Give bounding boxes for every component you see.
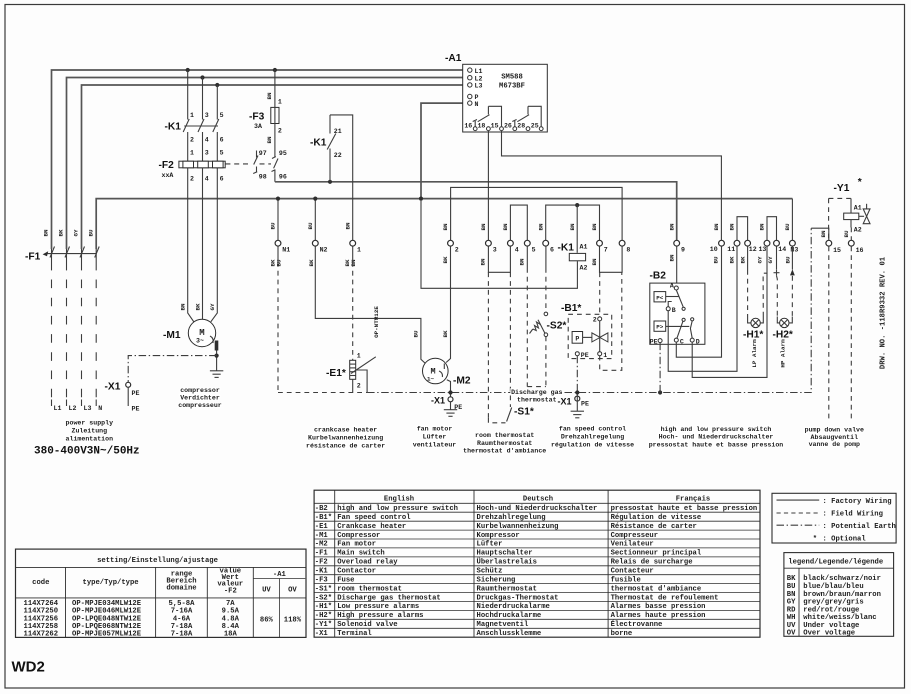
B2 internal changeover mechanism [666, 290, 694, 338]
wire field L2 to supply [66, 249, 68, 270]
wire B2 PE to rail [659, 343, 661, 393]
svg-text:GY: GY [787, 599, 796, 607]
svg-text:-H1*: -H1* [743, 330, 763, 341]
svg-text:-F2: -F2 [315, 559, 328, 567]
wire F2 to M1 (BK) [202, 168, 204, 320]
B2 pin C [674, 338, 678, 342]
B2 P-low box [654, 292, 666, 302]
pin A1 L1 [468, 68, 472, 72]
svg-text:PE: PE [581, 352, 589, 359]
svg-text:7: 7 [604, 247, 608, 254]
svg-text:Hochdruckalarme: Hochdruckalarme [477, 612, 542, 620]
terminal 1 [350, 240, 356, 246]
svg-text:WD2: WD2 [12, 659, 45, 676]
svg-text:118%: 118% [284, 617, 302, 625]
svg-text:L2: L2 [475, 75, 483, 82]
svg-text:GY: GY [73, 229, 80, 237]
B2 pin PE [658, 339, 662, 343]
svg-text:-K1: -K1 [315, 568, 329, 576]
svg-text:16: 16 [856, 247, 864, 254]
caption fan motor [413, 426, 457, 449]
svg-text:-M2: -M2 [453, 376, 471, 387]
svg-text:High pressure alarms: High pressure alarms [337, 612, 423, 620]
svg-text:96: 96 [279, 174, 287, 181]
svg-text:-B2: -B2 [315, 505, 328, 513]
wire S2 bottom to box bottom [545, 337, 547, 387]
svg-text:Hauptschalter: Hauptschalter [477, 550, 533, 558]
svg-text:Alarmes haute pression: Alarmes haute pression [611, 612, 706, 620]
wire field discharge thermostat left (terminal 5) [526, 246, 528, 268]
svg-text:4: 4 [205, 137, 209, 144]
terminal 10 [719, 240, 725, 246]
ground symbol M2 [444, 410, 457, 417]
svg-text:HP Alarm: HP Alarm [780, 339, 787, 368]
svg-text:BK: BK [740, 256, 747, 264]
wire B1 X1 to ground [576, 395, 578, 412]
wire lamp H1 to terminal 13 wire [763, 273, 767, 316]
svg-text:-F3: -F3 [249, 112, 265, 123]
terminal 13 [764, 240, 770, 246]
svg-text:Lüfter: Lüfter [477, 541, 503, 549]
pin A1 N [468, 101, 472, 105]
svg-text:-X1: -X1 [558, 397, 572, 407]
terminal 2 [448, 240, 454, 246]
wiring style legend box [772, 493, 896, 543]
svg-text:Low pressure alarms: Low pressure alarms [337, 603, 419, 611]
main switch F1 [43, 247, 100, 258]
svg-text:BU: BU [270, 222, 277, 230]
svg-text:OP-NTM12E: OP-NTM12E [373, 306, 380, 338]
svg-text:1: 1 [278, 99, 282, 106]
node junction PE rail / B1 X1 [575, 390, 579, 394]
svg-text:M673BF: M673BF [499, 83, 525, 91]
svg-text:BN: BN [266, 92, 273, 100]
svg-text:pressostat haute et basse pres: pressostat haute et basse pression [649, 441, 784, 448]
B1 pin 2 [598, 317, 602, 321]
svg-text:-K1: -K1 [165, 122, 182, 133]
wire potential earth rail [367, 228, 811, 392]
terminal N3 [790, 240, 796, 246]
relay contact A1 26/28/25 [512, 106, 541, 126]
svg-text:2: 2 [190, 137, 194, 144]
svg-text:room thermostat: room thermostat [337, 585, 402, 593]
svg-text:2: 2 [455, 247, 459, 254]
node M1 PE junction [215, 354, 219, 358]
svg-text:Deutsch: Deutsch [523, 495, 553, 503]
svg-text:pump down valve: pump down valve [805, 426, 864, 433]
wire mechanical link F2 dashed [225, 163, 271, 165]
svg-text:1: 1 [357, 353, 361, 360]
wire N1 riser [277, 199, 279, 240]
svg-text:BN: BN [519, 258, 526, 266]
wire M2 X1 to ground [450, 402, 452, 410]
node cross mark on wire 14 [774, 270, 780, 276]
svg-text:Kurbelwannenheizung: Kurbelwannenheizung [477, 523, 559, 531]
wire E1 bottom to PE rail [352, 379, 354, 392]
caption fan speed control [551, 426, 634, 449]
motor M2 fan [423, 358, 449, 384]
wire field room thermostat left (terminal 3) [487, 272, 489, 418]
node junction N1/BU bus [276, 197, 280, 201]
svg-text:Magnetventil: Magnetventil [477, 621, 529, 629]
svg-text:GY: GY [209, 303, 216, 311]
svg-text:11: 11 [727, 246, 735, 253]
svg-text:3~: 3~ [196, 338, 204, 345]
wire E1 side hook [356, 370, 367, 393]
svg-text:ventilateur: ventilateur [413, 442, 457, 449]
svg-text:Contactor: Contactor [337, 568, 376, 576]
settings table [16, 549, 307, 637]
svg-text:16: 16 [464, 122, 472, 129]
svg-text:13: 13 [758, 246, 766, 253]
svg-text:Alarmes basse pression: Alarmes basse pression [611, 603, 706, 611]
svg-text:-M2: -M2 [315, 541, 328, 549]
node junction BN line / K1 aux [328, 180, 332, 184]
svg-text:Schütz: Schütz [477, 568, 503, 576]
svg-text:Fuse: Fuse [337, 576, 354, 584]
node junction PE rail / B2 PE [658, 390, 662, 394]
svg-text:21: 21 [334, 128, 342, 135]
svg-text:-H1*: -H1* [315, 603, 332, 611]
wire terminal 15 feed [811, 228, 829, 240]
svg-text:BK: BK [729, 256, 736, 264]
svg-text:1: 1 [603, 352, 607, 359]
svg-text:L3: L3 [475, 83, 483, 90]
relay contact A1 16/18/15 [473, 106, 502, 126]
solenoid coil Y1 [844, 198, 859, 227]
terminal N1 [275, 240, 281, 246]
svg-text:6: 6 [550, 247, 554, 254]
svg-text:SM588: SM588 [501, 74, 523, 82]
svg-text:Over voltage: Over voltage [803, 629, 855, 637]
lamp H1 LP alarm [748, 317, 764, 328]
wire jumper terminals 4-5 [510, 205, 527, 240]
svg-text:Résistance de carter: Résistance de carter [611, 523, 697, 531]
svg-text:15: 15 [833, 247, 841, 254]
terminal 16 [848, 240, 854, 246]
wire terminal 2 to terminal 8 [451, 187, 622, 240]
wire F2 to M1 (GY) [211, 168, 218, 322]
svg-text:LP Alarm: LP Alarm [751, 339, 758, 368]
svg-text:N2: N2 [320, 247, 328, 254]
overload relay F2 [179, 161, 225, 168]
svg-text:: Factory Wiring: : Factory Wiring [823, 498, 892, 506]
svg-text:BN: BN [668, 223, 675, 231]
caption discharge gas thermostat [511, 389, 562, 404]
contactor K1 main contacts [183, 70, 219, 161]
svg-text:-A1: -A1 [273, 571, 287, 579]
fan speed control B1 box [568, 314, 612, 358]
B2 pin A [674, 286, 678, 290]
svg-text:BU: BU [784, 223, 791, 231]
svg-text:BN: BN [480, 223, 487, 231]
terminal 7 [597, 240, 603, 246]
svg-text:-F2: -F2 [224, 587, 237, 595]
wire terminal 9 to B2 A [676, 246, 678, 286]
svg-text:high and low pressure switch: high and low pressure switch [661, 426, 772, 433]
svg-text:OV: OV [288, 587, 297, 595]
terminal ticks L1 L2 L3 N [52, 400, 97, 407]
svg-text:P>: P> [656, 324, 664, 331]
svg-text:Main switch: Main switch [337, 550, 384, 558]
svg-text:Lüfter: Lüfter [423, 434, 447, 441]
svg-text:English: English [384, 495, 414, 503]
svg-text:-S2*: -S2* [547, 321, 567, 332]
svg-text:BK: BK [442, 256, 449, 264]
svg-text:Fan speed control: Fan speed control [337, 514, 411, 522]
svg-text:legend/Legende/légende: legend/Legende/légende [788, 559, 883, 567]
B2 pin B [666, 307, 670, 311]
svg-text:A2: A2 [580, 265, 588, 272]
svg-text:BN: BN [480, 258, 487, 266]
svg-text:black/schwarz/noir: black/schwarz/noir [803, 575, 881, 583]
wire jumper terminals 13-14 [767, 217, 777, 240]
wire B2 D to terminal 13 [692, 246, 767, 377]
svg-text:A2: A2 [854, 227, 862, 234]
wire terminal 14 stub [776, 246, 778, 269]
terminal 3 [486, 240, 492, 246]
svg-text:résistance de carter: résistance de carter [306, 443, 385, 450]
svg-text:5: 5 [220, 150, 224, 157]
svg-text:Terminal: Terminal [337, 630, 372, 638]
svg-text:Relais de surcharge: Relais de surcharge [611, 559, 693, 567]
svg-text:B: B [672, 307, 676, 314]
svg-text:Discharge gas thermostat: Discharge gas thermostat [337, 594, 441, 602]
terminal 6 [543, 240, 549, 246]
svg-text:Contacteur: Contacteur [611, 568, 654, 576]
svg-text:-K1: -K1 [558, 243, 575, 254]
svg-text:BN: BN [350, 259, 357, 267]
ground symbol B1 X1 [571, 411, 584, 418]
svg-text:-S2*: -S2* [315, 594, 332, 602]
svg-text:BK: BK [787, 575, 796, 583]
svg-text:N: N [98, 405, 102, 412]
svg-text:*: * [813, 535, 817, 543]
svg-text:-E1*: -E1* [326, 368, 346, 379]
svg-text:Discharge gas: Discharge gas [511, 389, 562, 396]
svg-text:-B1*: -B1* [561, 303, 581, 314]
svg-text:18A: 18A [224, 631, 238, 639]
svg-text:Absaugventil: Absaugventil [811, 434, 859, 441]
svg-text:-M1: -M1 [163, 330, 181, 341]
terminal 5 [524, 240, 530, 246]
svg-text:BK: BK [308, 259, 315, 267]
wire A1 pin15 to terminal 10 [502, 131, 722, 240]
svg-text:4: 4 [205, 176, 209, 183]
svg-text:Kompressor: Kompressor [477, 532, 520, 540]
wire terminal 2 to fan motor M2 [446, 246, 450, 362]
wire X1 PE pigtail [127, 387, 129, 406]
svg-text:Raumthermostat: Raumthermostat [477, 585, 537, 593]
svg-text:95: 95 [279, 150, 287, 157]
svg-text:Kurbelwannenheizung: Kurbelwannenheizung [308, 435, 383, 442]
wire N/BU bus right section [421, 198, 792, 200]
svg-text:BU: BU [785, 256, 792, 264]
svg-text:blue/blau/bleu: blue/blau/bleu [803, 583, 863, 591]
svg-text:brown/braun/marron: brown/braun/marron [803, 591, 881, 599]
svg-text:3: 3 [493, 247, 497, 254]
svg-text:A1: A1 [580, 244, 588, 251]
B1 pin 1 [598, 352, 602, 356]
contactor K1 auxiliary contact 21/22 [327, 115, 353, 240]
control board A1 [463, 64, 548, 132]
svg-text:: Potential Earth: : Potential Earth [823, 523, 896, 531]
svg-text:3: 3 [205, 112, 209, 119]
svg-text:Sicherung: Sicherung [477, 576, 516, 584]
contact F2 95/96 [272, 157, 279, 182]
svg-text:BN: BN [502, 223, 509, 231]
svg-text:Niederdruckalarme: Niederdruckalarme [477, 603, 550, 611]
colour legend box [784, 553, 894, 637]
svg-text:: Optional: : Optional [823, 535, 867, 543]
wire field L1 to supply [51, 249, 53, 270]
wire M1 PE to X1 (potential earth) [128, 356, 216, 383]
svg-text:-F1: -F1 [25, 252, 41, 263]
terminal 14 [774, 240, 780, 246]
svg-text:BN: BN [266, 136, 273, 144]
svg-text:7-18A: 7-18A [171, 631, 193, 639]
svg-text:: Field Wiring: : Field Wiring [823, 511, 883, 519]
svg-text:97: 97 [259, 150, 267, 157]
svg-text:N3: N3 [790, 247, 798, 254]
svg-text:BK: BK [58, 229, 65, 237]
svg-text:3: 3 [205, 150, 209, 157]
motor M1 compressor [188, 319, 218, 350]
svg-text:Druckgas-Thermostat: Druckgas-Thermostat [477, 594, 559, 602]
svg-text:18: 18 [477, 122, 485, 129]
svg-text:Zuleitung: Zuleitung [71, 427, 107, 434]
svg-text:98: 98 [259, 174, 267, 181]
svg-text:Compresseur: Compresseur [611, 532, 658, 540]
terminal 8 [619, 240, 625, 246]
svg-text:-F3: -F3 [315, 576, 328, 584]
svg-text:P<: P< [656, 294, 664, 301]
svg-text:BU: BU [843, 230, 850, 238]
svg-text:crankcase heater: crankcase heater [314, 427, 377, 434]
terminal X1 at B1 [575, 396, 580, 401]
svg-text:380-400V3N~/50Hz: 380-400V3N~/50Hz [34, 446, 140, 458]
svg-text:domaine: domaine [166, 584, 196, 592]
svg-text:-F2: -F2 [159, 160, 175, 171]
svg-text:fan speed control: fan speed control [559, 426, 626, 433]
wire field L3 to supply [81, 249, 83, 270]
svg-text:2: 2 [278, 128, 282, 135]
svg-text:type/Typ/type: type/Typ/type [83, 579, 139, 587]
wire L2 bus (BK) [67, 78, 468, 250]
crankcase heater E1 [350, 357, 376, 380]
wire field discharge thermostat right (terminal 6) [545, 246, 547, 268]
svg-text:Hoch- und Niederdruckschalter: Hoch- und Niederdruckschalter [659, 434, 774, 441]
svg-text:Raumthermostat: Raumthermostat [477, 440, 532, 447]
svg-text:1: 1 [190, 112, 194, 119]
svg-text:BN: BN [569, 223, 576, 231]
solenoid valve Y1 box [829, 198, 851, 239]
legend table English/Deutsch/Francais [314, 490, 760, 638]
svg-text:OV: OV [787, 629, 796, 637]
svg-text:Régulation de vitesse: Régulation de vitesse [611, 514, 702, 522]
svg-text:BU: BU [413, 330, 420, 338]
svg-text:GY: GY [757, 256, 764, 264]
svg-text:L2: L2 [69, 405, 77, 412]
node junction L1/K1 [186, 68, 190, 72]
wire field room thermostat right (terminal 4) [509, 272, 511, 404]
node arrow mark on wire N3 [790, 269, 795, 275]
svg-text:A: A [670, 283, 674, 290]
wire B1 pin1 field to terminal 8 node [600, 273, 622, 371]
svg-text:thermostat: thermostat [517, 397, 557, 404]
svg-text:4: 4 [515, 247, 519, 254]
svg-text:15: 15 [491, 122, 499, 129]
svg-text:PE: PE [132, 406, 140, 413]
caption crankcase heater [306, 427, 385, 450]
svg-text:vanne de pomp: vanne de pomp [809, 441, 860, 448]
svg-text:UV: UV [262, 587, 271, 595]
svg-text:BK: BK [194, 303, 201, 311]
svg-text:code: code [32, 579, 49, 587]
svg-text:fan motor: fan motor [417, 426, 453, 433]
pressure switch B2 box [650, 283, 705, 344]
svg-text:D: D [696, 339, 700, 346]
wire jumper terminals 3-4 [488, 246, 510, 272]
svg-text:-Y1: -Y1 [834, 183, 850, 194]
wire B1 PE to X1 [576, 356, 578, 391]
wire N2 riser [314, 199, 316, 240]
svg-text:fusible: fusible [611, 576, 641, 584]
svg-text:BN: BN [787, 591, 796, 599]
svg-text:Français: Français [676, 495, 711, 503]
svg-text:Sectionneur principal: Sectionneur principal [611, 550, 702, 558]
svg-text:1: 1 [190, 150, 194, 157]
valve symbol Y1 [859, 204, 870, 224]
terminal 11 [734, 240, 740, 246]
svg-text:N: N [475, 101, 479, 108]
wire BN control line from 96 to terminal 9 [275, 182, 677, 240]
svg-text:26: 26 [504, 122, 512, 129]
svg-text:9: 9 [681, 247, 685, 254]
svg-text:N1: N1 [282, 247, 290, 254]
caption room thermostat [463, 432, 546, 455]
wire F2 to M1 (BN) [188, 168, 194, 322]
wire field terminal 7 to B1 pin 2 [599, 272, 601, 317]
svg-text:1~: 1~ [427, 376, 435, 383]
svg-text:14: 14 [778, 246, 786, 253]
svg-text:borne: borne [611, 630, 633, 638]
node junction L2/K1 [200, 75, 204, 79]
wire field 14 to lamp H2 [776, 276, 779, 317]
pin A1 P [468, 94, 472, 98]
wire N3 stub [791, 246, 793, 269]
svg-text:A1: A1 [854, 205, 862, 212]
terminal 12 [745, 240, 751, 246]
svg-text:BU: BU [787, 583, 796, 591]
svg-text:5: 5 [532, 247, 536, 254]
svg-text:xxA: xxA [162, 172, 174, 179]
wire crankcase heater box bottom (field) [278, 392, 367, 394]
svg-text:2: 2 [190, 176, 194, 183]
svg-text:-K1: -K1 [310, 138, 327, 149]
svg-text:8: 8 [626, 247, 630, 254]
terminal 15 [826, 240, 832, 246]
svg-text:L1: L1 [54, 405, 62, 412]
svg-text:M: M [199, 328, 204, 338]
caption compressor [178, 387, 222, 409]
ground symbol M1 [210, 371, 223, 378]
svg-text:25: 25 [531, 122, 539, 129]
svg-text:10: 10 [710, 246, 718, 253]
svg-text:-S1*: -S1* [315, 585, 332, 593]
svg-text:Drehzahlregelung: Drehzahlregelung [561, 434, 624, 441]
svg-text:BU: BU [713, 256, 720, 264]
